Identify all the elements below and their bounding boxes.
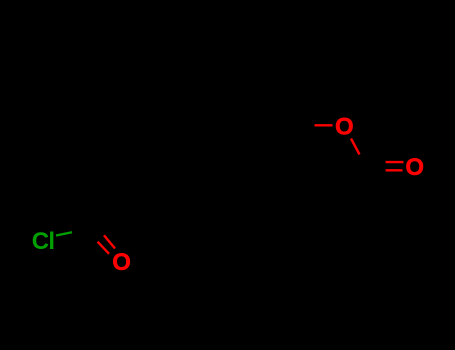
- wire ring bond v5-v6: [171, 188, 219, 216]
- double bond C=O3 upper line (red): [386, 161, 404, 163]
- wire bond ring to ester oxygen (black half): [267, 125, 315, 133]
- bond O2-acetyl carbon (red half near O2): [351, 139, 360, 155]
- wire ring bond v3-v4: [265, 133, 267, 188]
- bond C1-Cl (green half near Cl): [56, 232, 72, 235]
- svg-text:O: O: [112, 249, 131, 276]
- wire bond ring to acyl carbon C1: [97, 188, 171, 228]
- wire bond O2 to acetyl carbon (black half): [360, 155, 369, 167]
- wire bond acetyl carbon to methyl: [360, 166, 368, 212]
- double bond C=O3 lower line (red): [386, 169, 403, 171]
- wire ring bond v4-v5: [219, 188, 267, 216]
- svg-text:O: O: [335, 113, 354, 140]
- wire ring bond v1-v2: [171, 105, 219, 133]
- double bond C1=O1 line b (red): [98, 242, 109, 254]
- svg-text:O: O: [405, 154, 424, 181]
- bond ring-O2 (red half near O2): [315, 124, 333, 126]
- cyclohexane ring (black bonds, invisible on black background): [72, 105, 368, 232]
- wire bond C1 to Cl (black half): [72, 227, 97, 232]
- double bond C1=O1 line a (red): [104, 235, 115, 248]
- wire ring bond v2-v3: [219, 105, 267, 133]
- svg-text:Cl: Cl: [32, 228, 54, 255]
- wire ring bond v6-v1: [170, 133, 172, 188]
